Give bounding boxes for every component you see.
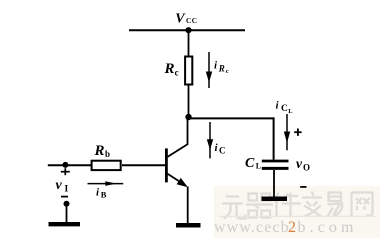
ground (left) [49, 222, 81, 226]
svg-text:b: b [105, 149, 110, 159]
transistor Q1 emitter arrow [177, 178, 188, 187]
svg-text:V: V [175, 12, 186, 27]
svg-text:C: C [281, 104, 288, 114]
transistor Q1 collector lead [168, 117, 188, 157]
wire: Rc to collector node [188, 86, 190, 119]
resistor Rc [185, 57, 192, 85]
svg-text:R: R [94, 143, 105, 159]
svg-text:C: C [245, 156, 255, 171]
svg-text:v: v [56, 178, 63, 193]
watermark band [214, 186, 380, 238]
svg-text:R: R [164, 61, 175, 77]
watermark row1: 器 [246, 194, 273, 218]
current arrow iC [207, 122, 213, 158]
minus sign (vI) [61, 196, 68, 198]
svg-text:R: R [218, 63, 225, 73]
svg-text:L: L [288, 108, 293, 115]
wire: CL to ground [273, 170, 275, 197]
plus sign (vO) [294, 129, 301, 136]
wire: dot to ground [66, 204, 68, 223]
svg-text:L: L [256, 162, 261, 171]
svg-text:v: v [296, 156, 303, 171]
svg-text:I: I [65, 184, 69, 194]
svg-text:O: O [303, 163, 310, 173]
node: source bottom dot [64, 201, 70, 207]
watermark rule [219, 215, 375, 217]
watermark row1: 元 [222, 197, 246, 219]
node: input dot [62, 162, 68, 168]
node: collector junction dot [185, 114, 191, 120]
resistor Rb [92, 161, 121, 170]
wire: VCC to Rc [188, 30, 190, 56]
wire: emitter to ground [187, 187, 189, 224]
minus sign (vO) [300, 186, 306, 188]
wire: input to Rb [48, 164, 91, 166]
wire: down to CL [273, 117, 275, 159]
ground (right) [262, 197, 288, 202]
svg-text:c: c [226, 68, 229, 75]
capacitor CL [262, 161, 289, 168]
wire: collector node to CL branch [189, 117, 275, 119]
svg-text:c: c [175, 68, 179, 78]
transistor Q1 emitter lead [168, 174, 187, 186]
watermark row1: 网 [352, 193, 373, 217]
current arrow iB [88, 181, 124, 186]
plus sign (vI) [61, 168, 70, 175]
current arrow iCL [284, 114, 290, 150]
watermark row1: 件 [274, 193, 301, 218]
node: VCC junction dot [185, 27, 191, 33]
wire: VCC rail [129, 29, 245, 31]
ground (emitter) [176, 223, 201, 228]
transistor Q1 base bar [165, 148, 168, 182]
svg-text:C: C [219, 146, 226, 156]
watermark row1: 交 [302, 192, 322, 217]
svg-text:CC: CC [186, 17, 197, 25]
wire: Rb to base [122, 164, 165, 166]
svg-text:B: B [101, 190, 107, 200]
current arrow iRc [206, 52, 212, 88]
svg-text:www.cecb2b.com: www.cecb2b.com [214, 219, 358, 236]
watermark row1: 易 [327, 193, 342, 218]
